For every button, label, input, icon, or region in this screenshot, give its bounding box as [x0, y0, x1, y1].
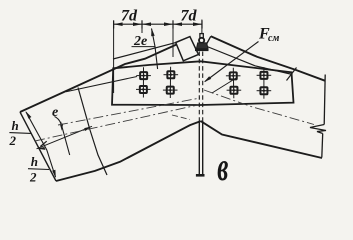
wire: left member axis dash-dot lower: [35, 105, 200, 142]
bolt L1: [136, 72, 151, 79]
svg-text:2: 2: [29, 170, 37, 185]
bolt R1: [226, 72, 241, 79]
svg-text:в: в: [217, 145, 228, 189]
wire: far plate edge left (line A): [113, 43, 176, 59]
bolt R2: [257, 72, 272, 79]
bolt: rod bottom washer: [196, 174, 205, 177]
wire: right rafter top edge: [211, 36, 325, 81]
wire: left member axis dash-dot upper: [58, 98, 200, 125]
wire: right rafter bottom edge: [201, 121, 322, 158]
wire: left rafter end face: [20, 112, 56, 181]
wire: left rafter top edge: [20, 45, 177, 113]
svg-text:2: 2: [9, 133, 17, 148]
bolt R3: [227, 87, 242, 94]
wire: hidden edge near joint: [212, 78, 237, 94]
wire: right member end break line: [324, 75, 325, 125]
wire: extension lines from top dimension: [114, 20, 202, 94]
svg-text:7d: 7d: [121, 8, 138, 25]
bolt group left: column centerlines: [142, 67, 144, 97]
node: gusset plate outline: [112, 61, 294, 105]
wire: apex notch right slope: [206, 36, 211, 48]
bolt group right: column centerlines: [232, 68, 235, 99]
bolt: apex nut: [196, 43, 208, 49]
bolt: apex bolt head: [199, 38, 204, 43]
bolt: vertical rod hidden part: [198, 52, 200, 122]
bolt R4: [257, 87, 272, 94]
wire: bolt row marking line: [66, 77, 137, 92]
wire: plate end tick mark: [287, 68, 297, 81]
bolt L3: [136, 86, 151, 93]
paper background: [0, 0, 353, 191]
wire: 2e leader with up arrow: [152, 29, 158, 70]
wire: top dimension line: [114, 20, 202, 28]
node: washer plate at apex: [176, 37, 199, 61]
wire: axis tail near ridge vertex: [172, 115, 190, 120]
bolt L2: [164, 71, 179, 78]
bolt: vertical rod visible part: [198, 121, 200, 175]
bolt: apex washer: [195, 48, 209, 51]
bolt: apex bolt tip: [200, 34, 203, 39]
svg-text:h: h: [31, 154, 38, 169]
wire: h dimension line: [26, 112, 56, 177]
bolt L4: [163, 87, 178, 94]
wire: far plate edge right: [206, 46, 293, 75]
wire: right member axis dash-dot: [204, 90, 314, 125]
svg-text:см: см: [268, 33, 279, 44]
arrowheads of top dimension: [114, 22, 202, 26]
wire: e boundary line 1: [78, 88, 107, 176]
svg-text:7d: 7d: [181, 8, 198, 25]
svg-text:h: h: [12, 118, 19, 133]
wire: left rafter bottom edge: [56, 121, 201, 181]
wire: e dimension arrow: [37, 126, 93, 149]
